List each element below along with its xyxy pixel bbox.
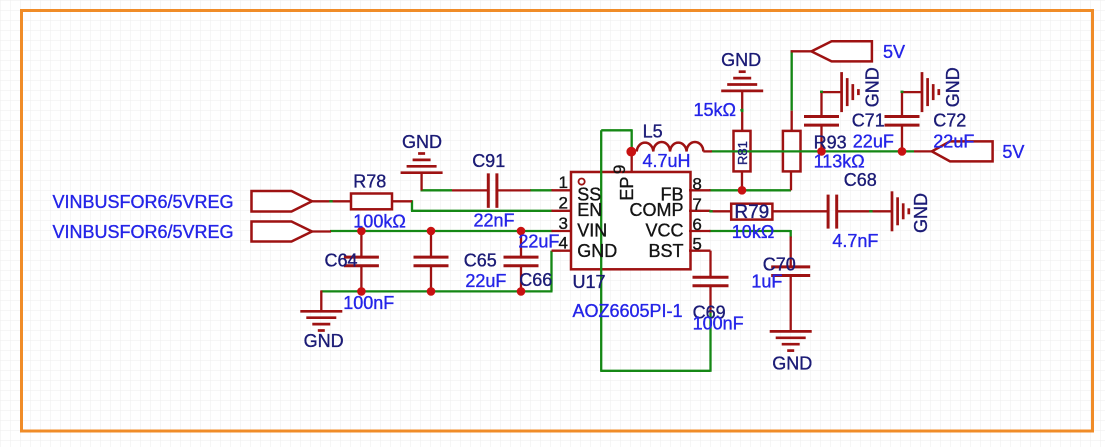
inductor L5 <box>637 142 704 152</box>
capacitor C70 <box>771 265 810 268</box>
svg-text:GND: GND <box>304 331 344 351</box>
svg-text:GND: GND <box>402 132 442 152</box>
pin R78 right <box>392 200 412 202</box>
wire BST riser <box>709 312 711 372</box>
svg-text:R81: R81 <box>735 141 750 165</box>
IC left pins 1-4 <box>552 189 572 191</box>
svg-text:22uF: 22uF <box>465 271 506 291</box>
svg-text:113kΩ: 113kΩ <box>814 152 865 172</box>
pin5 BST corner <box>709 250 710 252</box>
svg-text:VIN: VIN <box>577 221 607 241</box>
svg-text:C68: C68 <box>844 170 877 190</box>
svg-text:100kΩ: 100kΩ <box>353 211 406 231</box>
svg-text:7: 7 <box>692 195 701 214</box>
wire bottom GND rail <box>321 290 521 292</box>
svg-text:R93: R93 <box>814 133 847 153</box>
IC right pins 8-5 <box>689 189 711 191</box>
svg-text:3: 3 <box>559 214 568 233</box>
resistor R79 body <box>731 204 772 220</box>
svg-text:6: 6 <box>692 215 701 234</box>
wire VIN rail (pin3 row) <box>330 230 553 232</box>
wire port2 stub <box>312 230 331 232</box>
capacitor C66 stems <box>520 231 522 257</box>
svg-text:100nF: 100nF <box>343 293 394 313</box>
junction dots VIN rail <box>357 227 366 236</box>
pin R79 left <box>711 210 731 212</box>
resistor R81 body <box>734 131 751 172</box>
wire GND to C91 (SS row) <box>421 189 453 191</box>
svg-text:GND: GND <box>863 67 883 107</box>
svg-text:GND: GND <box>721 50 761 70</box>
pin L5 right <box>703 150 712 152</box>
wire EP loop top <box>601 129 632 131</box>
ground symbol (above R81) <box>721 90 763 93</box>
junction dot FB node <box>738 186 747 195</box>
svg-text:GND: GND <box>772 354 812 374</box>
ground symbol (right of C71) <box>840 72 843 112</box>
ground stem + pin R81 top <box>741 91 743 131</box>
svg-text:U17: U17 <box>573 272 606 292</box>
wire port1 to R78 <box>312 200 351 202</box>
svg-text:C91: C91 <box>472 151 505 171</box>
capacitor C69 <box>693 276 729 279</box>
svg-text:100nF: 100nF <box>693 314 744 334</box>
pin EP (9) <box>631 152 633 173</box>
wire speck R81 stem <box>741 109 743 112</box>
ground symbol (right of C72) <box>921 72 924 112</box>
op-amp/regulator U17 body <box>571 172 691 269</box>
wire speck C71 corner <box>820 91 823 93</box>
svg-text:VINBUSFOR6/5VREG: VINBUSFOR6/5VREG <box>53 192 234 212</box>
wire speck port1 <box>329 200 332 202</box>
svg-text:VINBUSFOR6/5VREG: VINBUSFOR6/5VREG <box>53 222 234 242</box>
ground symbol (above C91 wire) <box>401 171 443 174</box>
svg-text:5: 5 <box>692 235 701 254</box>
wire EP loop bottom <box>600 370 710 372</box>
svg-text:GND: GND <box>943 67 963 107</box>
svg-text:5V: 5V <box>883 42 905 62</box>
ground symbol (right of C68) <box>891 191 894 231</box>
pin C91 left <box>452 189 488 191</box>
port VINBUSFOR6/5VREG (bottom) <box>252 222 313 242</box>
svg-text:1uF: 1uF <box>751 272 782 292</box>
ground stem (bottom-left GND) <box>320 290 322 311</box>
junction dot L5/EP node <box>626 147 636 157</box>
svg-text:R79: R79 <box>734 202 769 223</box>
svg-text:EN: EN <box>577 200 602 220</box>
svg-text:9: 9 <box>610 165 629 174</box>
capacitor C70 stems <box>790 237 792 267</box>
C72 ground stem <box>901 91 922 93</box>
capacitor C72 stems <box>901 92 903 116</box>
svg-text:4.7nF: 4.7nF <box>832 231 878 251</box>
wire SW row (L5 to 5V port) <box>711 150 914 152</box>
wire speck R79 left <box>709 210 712 212</box>
junction dot C71/SW <box>817 147 826 156</box>
wire SW to 5V right port <box>914 150 932 152</box>
svg-text:22nF: 22nF <box>474 210 515 230</box>
capacitor C72 <box>885 115 920 118</box>
wire speck C68 gnd <box>869 210 872 212</box>
pin R79 right to C68 <box>772 210 827 212</box>
capacitor C71 <box>804 115 839 118</box>
svg-text:GND: GND <box>577 241 617 261</box>
svg-text:C64: C64 <box>325 251 358 271</box>
wire C68 to GND <box>836 210 892 212</box>
wire FB row <box>709 189 791 191</box>
capacitor C68 <box>827 195 830 229</box>
pin C91 right <box>497 189 531 191</box>
ground symbol (below C70) <box>770 330 812 333</box>
svg-text:GND: GND <box>911 193 931 233</box>
pin R93 bottom <box>790 171 792 190</box>
svg-text:10kΩ: 10kΩ <box>732 222 774 242</box>
pin R81 bottom <box>741 171 743 190</box>
port VINBUSFOR6/5VREG (top) <box>252 191 313 212</box>
port 5V (right) <box>932 141 993 161</box>
svg-text:C72: C72 <box>933 110 966 130</box>
capacitor C65 stems <box>430 231 432 257</box>
pin-1 indicator circle U17 <box>579 179 585 185</box>
capacitor C65 <box>414 256 449 259</box>
capacitor C91 <box>487 173 490 208</box>
capacitor C64 <box>344 256 379 259</box>
svg-text:4: 4 <box>559 234 568 253</box>
pin R93 top <box>791 111 793 131</box>
junction dot C72/SW <box>898 147 907 156</box>
svg-text:22uF: 22uF <box>933 132 974 152</box>
svg-text:5V: 5V <box>1002 142 1024 162</box>
svg-text:EP: EP <box>617 177 637 201</box>
ground symbol (bottom-left) <box>300 310 342 313</box>
wire speck R81 top green <box>740 109 743 111</box>
resistor R78 body <box>351 194 392 210</box>
svg-text:15kΩ: 15kΩ <box>694 100 736 120</box>
capacitor C69 stem bottom <box>709 286 711 313</box>
svg-text:C71: C71 <box>852 110 885 130</box>
svg-text:BST: BST <box>648 241 683 261</box>
ground stem (top GND near C91) <box>420 173 422 191</box>
wire 5V port to R93 <box>791 50 793 110</box>
svg-text:2: 2 <box>559 194 568 213</box>
C71 ground stem <box>820 91 841 93</box>
svg-text:8: 8 <box>692 174 701 193</box>
wire R78 jog to pin2 (EN row) <box>411 200 413 211</box>
capacitor C71 stems <box>820 92 822 116</box>
wire C91 to pin1 <box>530 189 553 191</box>
capacitor C64 stems <box>360 231 362 257</box>
capacitor C66 <box>504 256 539 259</box>
port 5V (top) <box>811 41 872 61</box>
svg-text:22uF: 22uF <box>853 132 894 152</box>
svg-text:22uF: 22uF <box>518 232 559 252</box>
resistor R93 body <box>783 131 801 172</box>
wire VCC row <box>709 230 791 232</box>
svg-text:4.7uH: 4.7uH <box>643 151 691 171</box>
junction dots GND rail <box>357 287 366 296</box>
wire speck C72 corner <box>901 91 904 93</box>
wire 5V port stub (top) <box>791 50 812 52</box>
svg-text:C66: C66 <box>519 270 552 290</box>
wire pin4 jog down <box>550 251 552 292</box>
wire VCC drop to C70 <box>790 230 792 238</box>
wire EP pin drop <box>631 129 633 151</box>
svg-text:1: 1 <box>559 173 568 192</box>
svg-text:R78: R78 <box>353 172 386 192</box>
wire EP loop left vertical <box>600 130 602 370</box>
svg-text:L5: L5 <box>643 122 663 142</box>
svg-text:C65: C65 <box>464 251 497 271</box>
svg-text:COMP: COMP <box>630 200 684 220</box>
svg-text:AOZ6605PI-1: AOZ6605PI-1 <box>573 301 683 321</box>
svg-text:VCC: VCC <box>645 221 683 241</box>
